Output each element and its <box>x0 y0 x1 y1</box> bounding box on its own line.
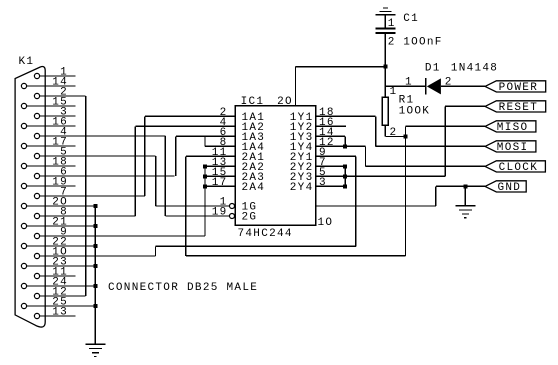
wire VCC rail to C1 <box>296 66 386 68</box>
diode D1 cathode bar <box>425 78 427 94</box>
wire pin5 to 1G riser <box>155 156 157 206</box>
wire MISO riser right <box>405 126 407 255</box>
svg-text:MOSI: MOSI <box>497 142 529 154</box>
wire 1Y2 stub <box>316 125 347 127</box>
wire DB25 pin 10 <box>40 255 156 257</box>
svg-text:2: 2 <box>388 37 396 49</box>
wire 1A3-1A4 tie <box>204 136 206 146</box>
wire C1 pin2 down to R1 pin1 <box>384 33 386 97</box>
wire DB25 pin 9 <box>40 235 205 237</box>
svg-text:2: 2 <box>445 76 453 88</box>
wire pin8 to 1A2 riser <box>134 126 136 216</box>
wire 1Y1 drop to MOSI <box>375 116 377 146</box>
wire DB25 pin 13 <box>40 315 76 317</box>
resistor R1 body <box>382 97 388 125</box>
wire IC1 pin 10 to GND <box>316 205 436 207</box>
connector K1 pin 1 circle <box>34 73 39 78</box>
connector K1 pin 11 circle <box>34 273 39 278</box>
junction 2Y2 <box>343 164 347 168</box>
wire MOSI run <box>376 145 485 147</box>
wire 2Y1 return to pin10 horizontal <box>156 245 356 247</box>
junction pin 25 to GND bus <box>93 304 97 308</box>
wire R1 pin 2 stub <box>384 125 386 136</box>
diode D1 triangle <box>427 78 441 94</box>
svg-text:D1: D1 <box>425 62 441 74</box>
wire MISO net riser to 2A1 <box>185 156 187 255</box>
svg-text:IC1: IC1 <box>241 96 265 108</box>
wire pin4 to 2G riser <box>164 136 166 216</box>
svg-text:1N4148: 1N4148 <box>451 62 498 74</box>
svg-text:RESET: RESET <box>499 102 539 114</box>
wire 2Y2 out <box>316 165 346 167</box>
wire DB25 pin 18 <box>27 165 76 167</box>
svg-text:CLOCK: CLOCK <box>499 162 539 174</box>
2G inverter bubble <box>230 214 235 219</box>
svg-text:1OOnF: 1OOnF <box>403 37 443 49</box>
connector K1 pin 22 circle <box>21 243 26 248</box>
wire DB25 pin 11 <box>40 275 76 277</box>
connector K1 pin 6 circle <box>34 173 39 178</box>
junction 2Y3 <box>343 174 347 178</box>
wire DB25 pin 8 <box>40 215 136 217</box>
svg-text:74HC244: 74HC244 <box>238 228 293 240</box>
wire DB25 pin 2 <box>40 95 86 97</box>
svg-text:1OOK: 1OOK <box>399 105 431 117</box>
net flag MISO <box>485 121 536 132</box>
connector K1 pin 24 circle <box>21 283 26 288</box>
wire DB25 pin 6 <box>40 175 175 177</box>
svg-text:13: 13 <box>52 307 68 319</box>
connector K1 pin 14 circle <box>21 83 26 88</box>
wire RESET riser <box>444 106 446 176</box>
svg-text:1O: 1O <box>318 217 334 229</box>
junction 2A2 bus <box>203 164 207 168</box>
svg-text:CONNECTOR DB25 MALE: CONNECTOR DB25 MALE <box>108 282 258 294</box>
connector K1 pin 2 circle <box>34 93 39 98</box>
junction 2A4 bus <box>203 184 207 188</box>
wire CLOCK drop <box>365 146 367 166</box>
wire pin2-pin12 loopback riser <box>85 96 87 296</box>
wire to 1A3 <box>176 135 235 137</box>
connector K1 pin 13 circle <box>34 313 39 318</box>
svg-text:1: 1 <box>390 86 398 98</box>
junction GND symbol tap <box>463 184 467 188</box>
wire C1 pin 1 stub <box>384 15 386 29</box>
wire 2Y bus tie <box>344 166 346 186</box>
wire DB25 pin 15 <box>27 105 76 107</box>
wire 2Y3 out to RESET <box>316 175 446 177</box>
wire to 2A2 <box>205 165 235 167</box>
wire DB25 pin 17 <box>27 145 76 147</box>
wire 2A2-2A4 bus riser to pin9 <box>204 166 206 236</box>
svg-text:GND: GND <box>498 182 522 194</box>
connector K1 pin 4 circle <box>34 133 39 138</box>
wire R1 pin2 to MISO node <box>385 136 405 138</box>
svg-text:19: 19 <box>212 207 228 219</box>
wire to 1G <box>156 205 230 207</box>
connector K1 pin 17 circle <box>21 143 26 148</box>
wire DB25 pin 24 <box>27 285 96 287</box>
svg-text:K1: K1 <box>19 56 35 68</box>
wire IC1 pin 20 VCC stub <box>295 67 297 106</box>
svg-text:2Y4: 2Y4 <box>290 182 314 194</box>
svg-text:3: 3 <box>319 177 327 189</box>
connector K1 pin 18 circle <box>21 163 26 168</box>
connector K1 pin 5 circle <box>34 153 39 158</box>
connector K1 pin 10 circle <box>34 253 39 258</box>
wire DB25 pin 20 <box>27 205 96 207</box>
wire pin7 to 1A1 riser <box>144 116 146 196</box>
net flag RESET <box>485 101 546 112</box>
svg-text:17: 17 <box>212 177 228 189</box>
junction pin 23 to GND bus <box>93 264 97 268</box>
wire DB25 pin 16 <box>27 125 76 127</box>
wire D1 anode to POWER <box>441 85 485 87</box>
connector K1 pin 7 circle <box>34 193 39 198</box>
wire to 1A4 <box>205 145 235 147</box>
ground symbol bottom left <box>85 343 105 345</box>
connector K1 pin 21 circle <box>21 223 26 228</box>
connector K1 pin 19 circle <box>21 183 26 188</box>
junction R1.2 / MISO <box>404 135 408 139</box>
svg-text:2G: 2G <box>242 211 258 223</box>
wire DB25 pin 19 <box>27 185 76 187</box>
wire RESET run <box>445 105 485 107</box>
wire to ground symbol right <box>464 186 466 205</box>
net flag GND <box>485 181 526 192</box>
junction VCC rail / C1 <box>383 65 387 69</box>
junction 2A3 bus <box>203 174 207 178</box>
wire pin10 riser to GND flag <box>435 186 437 206</box>
wire to 1A2 <box>135 125 235 127</box>
wire GND bus down <box>94 206 96 344</box>
wire DB25 pin 7 <box>40 195 145 197</box>
net flag MOSI <box>485 141 536 152</box>
junction pin 20 to GND bus <box>93 204 97 208</box>
wire pin6 to 1A3 riser <box>175 136 177 176</box>
wire DB25 pin 3 <box>40 115 76 117</box>
op IC1 74HC244 box <box>235 106 316 226</box>
wire DB25 pin 25 <box>27 305 96 307</box>
wire to 2A1 <box>186 155 235 157</box>
wire 2Y4 out <box>316 185 346 187</box>
connector K1 pin 12 circle <box>34 293 39 298</box>
wire DB25 pin 23 <box>27 265 96 267</box>
connector K1 pin 3 circle <box>34 113 39 118</box>
wire 1Y3 out <box>316 135 346 137</box>
wire DB25 pin 1 <box>40 75 76 77</box>
junction pin 24 to GND bus <box>93 284 97 288</box>
1G inverter bubble <box>230 204 235 209</box>
wire 2Y1 out <box>316 155 356 157</box>
wire MISO net lower horizontal <box>186 255 406 257</box>
wire to 2A4 <box>205 185 235 187</box>
wire GND run <box>436 185 485 187</box>
wire DB25 pin 21 <box>27 225 96 227</box>
svg-text:1: 1 <box>388 18 396 30</box>
net flag CLOCK <box>485 161 545 172</box>
wire DB25 pin 22 <box>27 245 96 247</box>
connector K1 pin 23 circle <box>21 263 26 268</box>
wire to 2G <box>165 215 229 217</box>
svg-text:1: 1 <box>405 76 413 88</box>
connector K1 pin 25 circle <box>21 303 26 308</box>
svg-text:2O: 2O <box>277 96 293 108</box>
wire to 2A3 <box>205 175 235 177</box>
junction pin 22 to GND bus <box>93 244 97 248</box>
wire 1Y4 out bus <box>316 145 366 147</box>
wire DB25 pin 4 <box>40 135 166 137</box>
connector K1 pin 16 circle <box>21 123 26 128</box>
svg-text:C1: C1 <box>403 13 419 25</box>
connector K1 body outline <box>15 67 45 328</box>
ground symbol right <box>455 205 475 207</box>
wire 2Y1 drop <box>355 156 357 246</box>
wire DB25 pin 5 <box>40 155 156 157</box>
svg-text:MISO: MISO <box>497 122 529 134</box>
ground symbol top (at C1 pin 1) <box>383 7 388 9</box>
wire 1Y3 drop <box>344 136 346 146</box>
wire to D1 cathode <box>385 85 426 87</box>
wire MISO run <box>406 125 486 127</box>
wire DB25 pin 12 <box>40 295 86 297</box>
connector K1 pin 15 circle <box>21 103 26 108</box>
junction 2Y4 <box>343 184 347 188</box>
svg-text:POWER: POWER <box>499 82 539 94</box>
junction 1Y3-1Y4 <box>343 144 347 148</box>
connector K1 pin 9 circle <box>34 233 39 238</box>
net flag POWER <box>485 81 546 92</box>
wire DB25 pin 14 <box>27 85 76 87</box>
wire to 1A1 <box>145 115 235 117</box>
wire CLOCK run <box>366 165 486 167</box>
capacitor C1 <box>375 28 395 30</box>
junction pin 21 to GND bus <box>93 224 97 228</box>
wire 2Y1 return drop <box>155 246 157 256</box>
connector K1 pin 8 circle <box>34 213 39 218</box>
connector K1 pin 20 circle <box>21 203 26 208</box>
svg-text:2A4: 2A4 <box>242 182 266 194</box>
wire 1Y1 out <box>316 115 376 117</box>
